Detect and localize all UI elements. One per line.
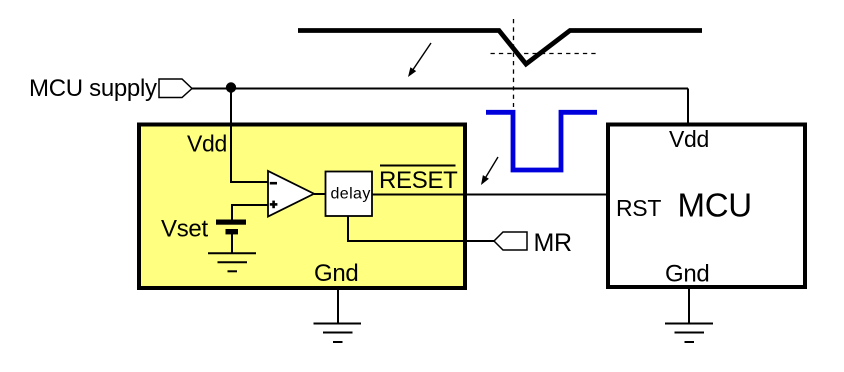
svg-text:Vset: Vset: [161, 216, 208, 243]
arrow to supply waveform: [408, 43, 431, 77]
svg-text:delay: delay: [331, 186, 371, 203]
junction dot: [226, 82, 236, 92]
wire: comparator output to delay: [314, 193, 326, 195]
wire: RESET output to MCU RST: [372, 194, 608, 196]
svg-text:Gnd: Gnd: [314, 260, 358, 287]
RESET overline: [380, 165, 456, 167]
delay block U2: [326, 172, 373, 217]
svg-text:Vdd: Vdd: [669, 126, 709, 152]
svg-text:RST: RST: [616, 195, 661, 221]
MR input tag: [494, 232, 527, 250]
comparator U1: [268, 171, 314, 217]
svg-text:MR: MR: [534, 229, 572, 257]
threshold horizontal dashed line: [491, 53, 597, 55]
MCU supply input tag: [159, 79, 192, 98]
wire: battery to internal ground: [231, 234, 233, 253]
svg-text:Vdd: Vdd: [187, 131, 227, 157]
wire: supply rail: [192, 88, 688, 90]
battery B1 (Vset reference): [216, 220, 246, 235]
MCU box: [608, 125, 805, 288]
ground (MCU): [665, 324, 713, 343]
wire: MCU ground: [688, 287, 690, 323]
wire: Vset battery to comparator non-inverting input: [232, 205, 268, 220]
threshold vertical dashed line: [513, 19, 515, 107]
arrow to RESET line: [481, 157, 498, 185]
ground (supervisor): [314, 324, 362, 343]
svg-text:MCU supply: MCU supply: [29, 75, 157, 102]
reset pulse waveform (blue): [486, 112, 597, 170]
svg-text:MCU: MCU: [678, 186, 752, 223]
supply voltage waveform with brownout dip: [298, 31, 702, 65]
svg-text:RESET: RESET: [379, 167, 458, 194]
supervisor IC box (yellow): [139, 125, 465, 289]
svg-text:Gnd: Gnd: [665, 260, 709, 287]
ground (under battery): [208, 253, 256, 271]
wire: junction down to comparator inverting input: [231, 89, 268, 183]
wire: supply down to MCU Vdd: [687, 89, 689, 125]
wire: delay to MR input: [348, 216, 494, 241]
wire: supervisor ground: [337, 288, 339, 323]
